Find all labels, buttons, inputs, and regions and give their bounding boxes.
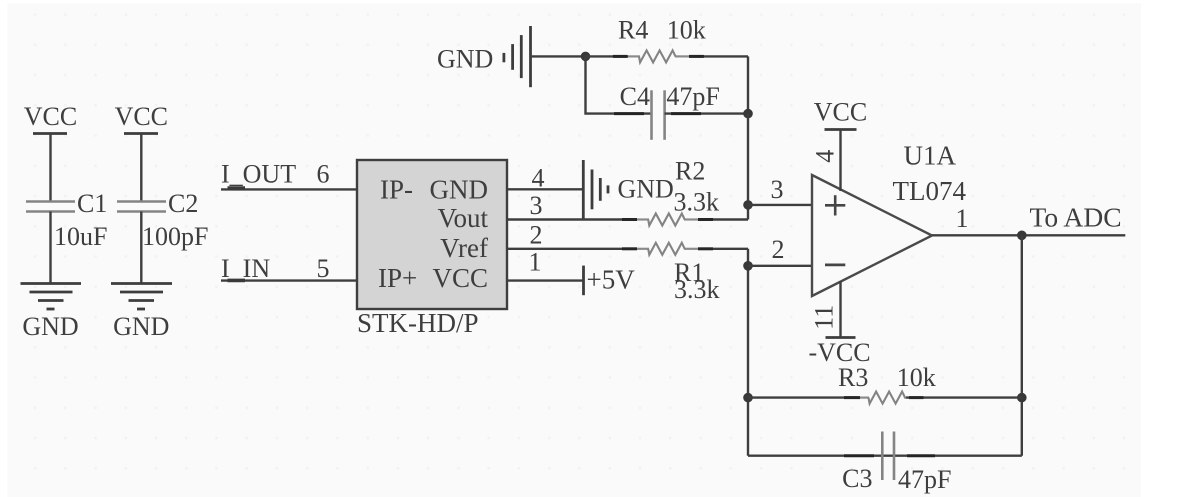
svg-text:2: 2 xyxy=(530,221,543,250)
svg-text:IP-: IP- xyxy=(380,175,413,205)
wire xyxy=(531,55,586,57)
svg-text:TL074: TL074 xyxy=(893,176,967,206)
power symbol VCC (C2 branch) xyxy=(115,102,168,134)
ground (top net) xyxy=(437,26,531,87)
svg-text:STK-HD/P: STK-HD/P xyxy=(357,308,479,338)
svg-text:GND: GND xyxy=(430,175,489,205)
IC U? STK-HD/P body xyxy=(357,160,507,309)
svg-text:C4: C4 xyxy=(620,82,650,111)
power symbol VCC (op-amp) xyxy=(814,98,867,130)
capacitor C2 xyxy=(117,189,208,251)
resistor R4 xyxy=(613,16,706,63)
junction xyxy=(743,109,753,119)
wire xyxy=(49,134,51,202)
resistor R3 xyxy=(838,363,936,404)
wire (C4 right) xyxy=(665,112,748,114)
svg-text:U1A: U1A xyxy=(904,141,957,171)
junction (R3 left) xyxy=(743,393,753,403)
wire (vertical from R1 down to C3) xyxy=(747,249,749,456)
wire R4 top run xyxy=(586,55,629,57)
svg-text:3.3k: 3.3k xyxy=(674,275,720,304)
wire pin 1 xyxy=(508,279,584,281)
wire pin 6 xyxy=(221,188,357,190)
svg-text:5: 5 xyxy=(317,254,330,283)
capacitor C1 xyxy=(26,189,107,251)
svg-text:VCC: VCC xyxy=(24,102,77,131)
svg-text:C1: C1 xyxy=(77,189,107,218)
wire (C4 branch left) xyxy=(586,56,652,113)
capacitor C4 xyxy=(620,82,720,140)
junction (R3 right) xyxy=(1017,393,1027,403)
wire xyxy=(140,134,142,202)
op-amp U1A xyxy=(812,175,932,296)
svg-text:VCC: VCC xyxy=(115,102,168,131)
wire (vertical into + input node) xyxy=(747,114,749,220)
svg-text:6: 6 xyxy=(317,160,330,189)
wire (+ input) xyxy=(748,204,812,206)
svg-text:4: 4 xyxy=(811,150,840,163)
ground (C1 branch) xyxy=(21,284,82,342)
svg-text:10k: 10k xyxy=(897,363,936,392)
wire (- input) xyxy=(748,265,812,267)
wire (output) xyxy=(932,234,1125,236)
svg-text:I_OUT: I_OUT xyxy=(221,160,296,189)
svg-text:10k: 10k xyxy=(667,16,706,45)
junction (node 3) xyxy=(743,200,753,210)
power symbol +5V xyxy=(584,265,636,296)
svg-text:+5V: +5V xyxy=(587,265,636,295)
svg-text:1: 1 xyxy=(956,204,969,233)
resistor R2 xyxy=(622,157,719,226)
junction xyxy=(581,52,591,62)
svg-text:10uF: 10uF xyxy=(54,222,107,251)
power symbol -VCC xyxy=(808,338,870,368)
wire (R3 run) xyxy=(748,396,858,398)
svg-text:R3: R3 xyxy=(838,363,868,392)
ground (C2 branch) xyxy=(111,284,172,342)
svg-text:11: 11 xyxy=(810,305,839,330)
svg-text:47pF: 47pF xyxy=(898,465,951,494)
svg-text:To ADC: To ADC xyxy=(1030,202,1122,233)
svg-text:2: 2 xyxy=(772,235,785,264)
wire pin 2 xyxy=(508,248,637,250)
wire (output node down) xyxy=(1021,235,1023,455)
svg-text:VCC: VCC xyxy=(432,263,488,293)
svg-text:VCC: VCC xyxy=(814,98,867,127)
ground (pin 4) xyxy=(583,160,674,219)
svg-text:Vout: Vout xyxy=(437,203,488,233)
svg-text:1: 1 xyxy=(529,248,542,277)
junction (node 2) xyxy=(743,261,753,271)
svg-text:3.3k: 3.3k xyxy=(674,188,720,217)
svg-text:C2: C2 xyxy=(168,189,198,218)
svg-text:R4: R4 xyxy=(618,16,648,45)
svg-text:100pF: 100pF xyxy=(142,222,208,251)
svg-text:GND: GND xyxy=(22,312,78,341)
svg-text:GND: GND xyxy=(618,175,674,204)
wire pin 3 xyxy=(508,218,637,220)
svg-text:3: 3 xyxy=(530,191,543,220)
wire (R4 right corner down) xyxy=(747,56,749,113)
svg-text:47pF: 47pF xyxy=(666,82,719,111)
wire pin 4 (op-amp) xyxy=(839,130,841,192)
svg-text:Vref: Vref xyxy=(440,233,488,263)
svg-text:R2: R2 xyxy=(675,157,705,186)
wire xyxy=(49,212,51,284)
wire (C3 bottom run) xyxy=(748,455,1022,457)
svg-text:C3: C3 xyxy=(842,464,872,493)
power symbol VCC (C1 branch) xyxy=(24,102,77,134)
resistor R1 xyxy=(622,243,720,304)
wire pin 11 (op-amp) xyxy=(839,281,841,338)
svg-text:GND: GND xyxy=(113,312,169,341)
svg-text:GND: GND xyxy=(437,45,493,74)
capacitor C3 xyxy=(842,432,951,495)
svg-text:3: 3 xyxy=(771,175,784,204)
wire pin 4 xyxy=(508,188,583,190)
wire pin 5 xyxy=(221,279,357,281)
junction (output node) xyxy=(1017,231,1027,241)
svg-text:IP+: IP+ xyxy=(378,263,417,293)
wire xyxy=(140,212,142,284)
